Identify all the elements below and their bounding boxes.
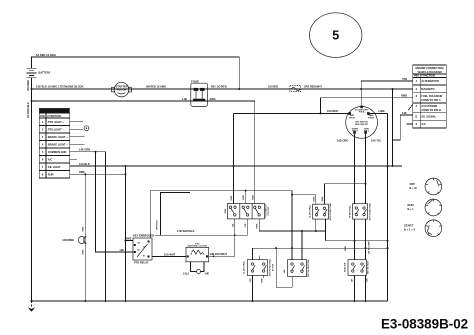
svg-text:CONN TO PIN B: CONN TO PIN B [421, 108, 441, 112]
switch boxB neutral sw2 [288, 260, 307, 277]
wire 14E GRN row5 [70, 152, 106, 301]
svg-text:RWF: RWF [79, 170, 85, 174]
svg-text:PTO LIGHT +: PTO LIGHT + [48, 120, 65, 124]
wire RWF row8 [70, 173, 126, 175]
wire pto feed mid [245, 191, 247, 204]
svg-text:FUNCTION: FUNCTION [48, 114, 62, 118]
svg-text:PIN L: PIN L [364, 130, 370, 132]
wire boxB top pins [292, 231, 302, 260]
wire pto bottom mid [247, 219, 249, 235]
key position START circle [425, 220, 442, 237]
svg-text:PIN S: PIN S [352, 130, 358, 132]
wire pto bottom left drop [234, 219, 236, 256]
svg-text:FUNCTION: FUNCTION [421, 74, 435, 78]
wire row6 stub [407, 123, 413, 125]
svg-text:B + L + S: B + L + S [404, 228, 415, 232]
svg-text:PTO LIGHT −: PTO LIGHT − [48, 128, 65, 132]
wire 16A RED to key switch y=113.4 [234, 112, 350, 114]
svg-text:OFF: OFF [410, 182, 416, 186]
svg-text:PIN: PIN [414, 74, 418, 78]
wire battery negative down left rail [31, 78, 33, 301]
wire box1 bottoms [316, 219, 326, 231]
svg-text:RUN PCB CONNECTOR: RUN PCB CONNECTOR [42, 111, 67, 113]
svg-text:UL NEUTRAL: UL NEUTRAL [309, 204, 312, 218]
svg-text:13M: 13M [250, 278, 252, 282]
svg-text:RE / SO RED: RE / SO RED [211, 85, 227, 89]
svg-text:5M RED 16 AWG: 5M RED 16 AWG [146, 85, 166, 89]
svg-text:WHT/BLK: WHT/BLK [156, 220, 158, 230]
svg-text:13N: 13N [366, 278, 368, 282]
svg-text:E3-08389B-02: E3-08389B-02 [381, 317, 468, 332]
svg-text:RWD: RWD [252, 195, 254, 200]
svg-text:14E: 14E [283, 269, 286, 273]
pto switch S2 [227, 203, 264, 219]
svg-text:13K: 13K [402, 111, 407, 115]
svg-text:13A BLK: 13A BLK [79, 162, 90, 166]
svg-text:RWD: RWD [243, 195, 245, 200]
wire branch to box1 top right [325, 184, 366, 205]
key position RUN circle [425, 199, 442, 216]
svg-text:16D ORG: 16D ORG [337, 139, 348, 143]
svg-text:RWD: RWD [313, 196, 315, 201]
svg-text:IN NEUTRAL: IN NEUTRAL [349, 204, 352, 217]
wire top 6A RED from battery to drop at x239 [32, 57, 240, 89]
wire 15A WHT relay to clutch [152, 256, 186, 258]
svg-text:16A RED: 16A RED [26, 80, 30, 91]
svg-text:RWE: RWE [322, 196, 324, 201]
wire 17B WHT/BLK [155, 234, 248, 236]
wire lower bus y=240.7 [326, 240, 388, 242]
switch box1 brake N.O. [313, 204, 329, 219]
wire lower bus y=231 [259, 231, 325, 241]
svg-text:16A RED: 16A RED [327, 109, 338, 113]
svg-text:RWE: RWE [231, 195, 233, 200]
svg-text:B: B [415, 114, 417, 118]
svg-text:57B: 57B [245, 223, 247, 227]
wire alternator 57B to table row1 [361, 81, 413, 89]
wire magneto branch down [392, 89, 394, 140]
svg-text:13G BLK 16 AWG LTS ENGINE BLOC: 13G BLK 16 AWG LTS ENGINE BLOCK [36, 85, 84, 89]
wire hour meter drop [84, 174, 86, 301]
svg-text:RWE: RWE [257, 223, 259, 228]
svg-text:16 AWG BLK: 16 AWG BLK [26, 102, 30, 118]
svg-text:RWD: RWD [401, 93, 407, 97]
svg-text:RUN CIRCUIT: RUN CIRCUIT [355, 124, 369, 126]
wire key start pin down chain [354, 134, 356, 204]
svg-text:START: START [404, 224, 413, 228]
svg-text:PTO RELAY: PTO RELAY [134, 260, 149, 264]
key position OFF circle [425, 178, 442, 195]
svg-text:KEY ENERGIZED: KEY ENERGIZED [133, 234, 154, 238]
wire key switch right LIME [368, 112, 387, 114]
svg-text:PIN A: PIN A [359, 111, 365, 114]
wire pcb row stubs [70, 122, 85, 160]
svg-text:57 PUR: 57 PUR [273, 263, 275, 271]
starter motor M1 [112, 82, 132, 97]
ground symbol [30, 300, 32, 302]
wire main 13G BLK engine block y=89 [32, 88, 413, 90]
wire box2 bottoms [355, 219, 366, 260]
wire key switch accessory drop [360, 89, 362, 106]
svg-text:SPS RED/WHT: SPS RED/WHT [304, 85, 322, 89]
svg-text:17B WHT/BLK: 17B WHT/BLK [177, 229, 195, 233]
wire pto feed left x=233.5 [233, 113, 235, 203]
svg-text:B + L: B + L [408, 207, 415, 211]
svg-text:LIME: LIME [379, 109, 385, 113]
hour meter H1 [78, 237, 85, 244]
wire relay 85 feed [96, 152, 134, 252]
svg-text:AWG: AWG [210, 97, 216, 101]
svg-text:VEHICLE DIAGRAM: VEHICLE DIAGRAM [417, 70, 441, 74]
node battery junction [31, 88, 33, 90]
switch seat SW [348, 260, 366, 276]
svg-text:RUN: RUN [408, 203, 414, 207]
svg-text:PIN B: PIN B [349, 117, 355, 119]
switch boxA neutral sw [247, 260, 267, 276]
wire 13A BLK row7 long [70, 165, 402, 167]
svg-text:HOURMG: HOURMG [63, 238, 75, 242]
svg-text:14B BLU/WHT: 14B BLU/WHT [210, 252, 228, 256]
wire clutch right 14B BLU/WHT [209, 255, 235, 257]
svg-text:13L2: 13L2 [183, 272, 189, 276]
wire key-energized top run [150, 191, 292, 249]
wire 57 PUR loop to boxB bottom [276, 248, 292, 287]
ground bus bottom [32, 300, 388, 302]
wire boxA bottom pins to bus [253, 275, 264, 301]
svg-text:15A WHT: 15A WHT [164, 252, 176, 256]
wire aux power diagonal row4 [408, 105, 413, 111]
wire right rail x=387.5 [387, 113, 389, 301]
svg-text:13A: 13A [231, 223, 234, 227]
svg-text:BATTERY: BATTERY [39, 71, 51, 75]
wire key run pin down chain [365, 134, 367, 204]
svg-text:SEAT SW: SEAT SW [344, 263, 347, 272]
svg-text:RWE: RWE [83, 226, 85, 231]
svg-text:MAGNETO: MAGNETO [421, 87, 434, 91]
svg-text:ALTERNATOR: ALTERNATOR [421, 79, 439, 83]
svg-text:PIN M: PIN M [368, 117, 374, 119]
svg-text:AUX POWER: AUX POWER [421, 104, 437, 108]
wire boxA top pins [253, 248, 260, 260]
fuse F1 [191, 80, 208, 107]
wire lower bus y=248.1 [253, 247, 388, 249]
battery B1 [27, 68, 37, 78]
svg-text:14B: 14B [182, 97, 187, 101]
svg-text:6A RED 16 AWG: 6A RED 16 AWG [36, 53, 56, 57]
svg-text:OIL SIGNAL: OIL SIGNAL [421, 114, 436, 118]
svg-text:MOTOR: MOTOR [117, 87, 127, 91]
svg-text:RUN: RUN [48, 173, 54, 177]
svg-text:PTO OFF: PTO OFF [268, 206, 270, 216]
svg-text:A/C: A/C [48, 158, 53, 162]
connector J1 inline [290, 86, 301, 92]
svg-text:UL NEUTRAL: UL NEUTRAL [243, 260, 246, 274]
svg-text:RWE: RWE [225, 208, 227, 213]
wire box1 top left feed [292, 195, 316, 204]
relay K1 PTO RELAY [133, 238, 152, 260]
wire relay riser 17B up [161, 193, 191, 236]
svg-text:FUEL SOLENOID: FUEL SOLENOID [421, 94, 442, 98]
svg-text:A/C: A/C [421, 122, 426, 126]
pto electric clutch L1 [186, 243, 209, 261]
svg-text:B + M: B + M [410, 186, 417, 190]
svg-text:NOT IN NEUTRAL: NOT IN NEUTRAL [268, 258, 271, 276]
svg-text:14E BLU/WHT: 14E BLU/WHT [367, 240, 370, 255]
wire clutch loop with diode [191, 262, 205, 272]
svg-text:FUSE: FUSE [191, 80, 199, 84]
wire seat switch pins to bus [355, 248, 366, 301]
wire common rail x=125.5 [125, 166, 127, 301]
svg-text:NOT IN SEAT: NOT IN SEAT [367, 260, 370, 274]
wire relay 86 feed [126, 240, 134, 242]
indicator lamp symbol [84, 126, 89, 131]
svg-text:14E: 14E [119, 248, 124, 252]
balloon callout 5 [310, 13, 362, 58]
svg-text:16A YEL: 16A YEL [371, 139, 382, 143]
svg-text:RWE: RWE [261, 278, 263, 283]
svg-text:RWD: RWD [345, 246, 347, 251]
svg-text:SO RED: SO RED [268, 85, 278, 89]
svg-text:PIN: PIN [40, 114, 44, 118]
switch box2 neutral [353, 204, 368, 219]
svg-text:COMMON GND: COMMON GND [48, 150, 67, 154]
run pcb connector table [39, 108, 69, 178]
svg-text:BRAKE LIGHT +: BRAKE LIGHT + [48, 135, 68, 139]
key switch S1 [346, 106, 378, 139]
svg-text:NOT IN NEUTRAL: NOT IN NEUTRAL [368, 202, 371, 220]
engine connector table [413, 65, 447, 128]
svg-text:14E: 14E [205, 272, 210, 276]
svg-text:57B: 57B [402, 77, 407, 81]
svg-text:BRAKE LIGHT −: BRAKE LIGHT − [48, 143, 68, 147]
wire fuel solenoid row3 [321, 98, 413, 114]
svg-text:RWE: RWE [125, 236, 131, 240]
svg-text:RWE: RWE [83, 249, 85, 254]
svg-text:CONN TO PIN 4: CONN TO PIN 4 [421, 98, 441, 102]
svg-text:OIL LIGHT: OIL LIGHT [48, 165, 61, 169]
svg-text:NOT IN NEUTRAL: NOT IN NEUTRAL [329, 202, 332, 220]
wire fuse lower feed 14B y=101 [32, 101, 255, 203]
svg-text:NOT IN NEUTRAL: NOT IN NEUTRAL [307, 259, 310, 277]
svg-text:ENGINE CONNECTION: ENGINE CONNECTION [415, 66, 443, 70]
svg-text:5: 5 [332, 29, 339, 43]
svg-text:ELECTRIC CLUTCH: ELECTRIC CLUTCH [188, 246, 208, 248]
wire pto bottom right to relay bus [258, 219, 260, 231]
svg-text:14E GRN: 14E GRN [79, 147, 90, 151]
wire oil signal row5 path [393, 115, 413, 166]
